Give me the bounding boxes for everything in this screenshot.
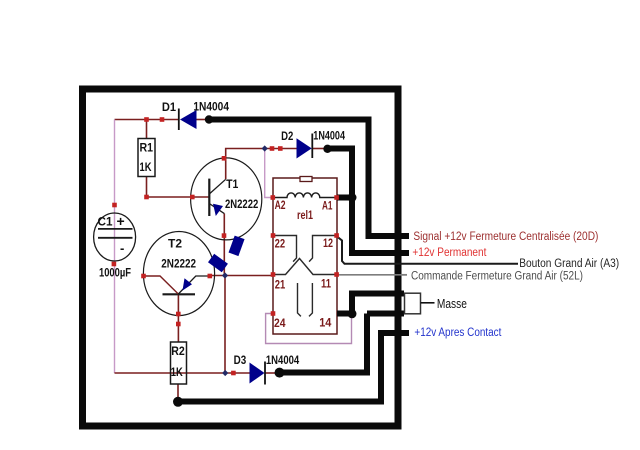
relay pin labels (274, 198, 333, 330)
wire D1 triangle to junction dot (196, 119, 209, 121)
blue annotation bar upper (229, 236, 245, 257)
relay contact pin22 (273, 236, 297, 262)
svg-text:1N4004: 1N4004 (266, 353, 300, 367)
masse link line (421, 302, 435, 304)
svg-text:D2: D2 (281, 129, 293, 143)
thick wire Masse stub and down to dot (352, 294, 404, 314)
svg-text:14: 14 (319, 316, 331, 330)
svg-text:+12v Permanent: +12v Permanent (412, 247, 487, 259)
thick wire relay A1 to permanent net (337, 195, 354, 201)
thick wire masse dot to relay pin14 (337, 311, 354, 317)
junction dot R2 bottom (173, 397, 183, 407)
wire Commande gray line from pin11 (337, 274, 407, 276)
svg-text:D1: D1 (162, 100, 176, 114)
wire T2 emitter to relay pin 21 (210, 275, 273, 277)
relay coil (273, 193, 337, 198)
wire Bouton Grand Air line from pin12 (337, 237, 518, 264)
junction dot masse net (348, 309, 357, 318)
diode D1 (180, 110, 197, 129)
svg-text:1N4004: 1N4004 (193, 99, 229, 113)
relay lower contact right (309, 283, 312, 316)
wire D3 bar to dot (265, 372, 279, 374)
svg-text:-: - (120, 241, 124, 256)
junction dot D1 (205, 115, 213, 123)
svg-text:A1: A1 (322, 198, 333, 212)
junction dot D2 (323, 145, 331, 153)
svg-text:1N4004: 1N4004 (313, 129, 345, 143)
svg-text:Signal +12v Fermeture Centrali: Signal +12v Fermeture Centralisée (20D) (413, 231, 598, 243)
junction diamonds navy (222, 145, 268, 376)
terminal squares red (112, 117, 339, 375)
wire T1 emitter down to node (223, 214, 225, 276)
svg-text:R2: R2 (171, 344, 185, 358)
svg-text:21: 21 (275, 277, 286, 291)
thick wire D2 dot right down to +12v Permanent (327, 149, 409, 254)
wire node down to D3 net (224, 276, 226, 374)
commande stub (402, 274, 407, 276)
wire T1 collector up to D2 net (226, 149, 297, 180)
junction dot D3 (275, 368, 285, 378)
wire R1 top stem (146, 120, 148, 139)
svg-text:C1: C1 (98, 215, 113, 229)
svg-text:Masse: Masse (437, 297, 467, 311)
transistor T2 (143, 232, 214, 316)
svg-text:R1: R1 (140, 141, 154, 155)
relay top notch (300, 177, 312, 182)
wire R1 to T1 base (147, 196, 209, 198)
svg-text:1000µF: 1000µF (99, 266, 131, 280)
thick wire D3 dot to masse box bottom (279, 314, 404, 373)
relay rel1 box (273, 178, 337, 334)
transistor T1 (191, 158, 262, 240)
capacitor C1 (94, 213, 136, 261)
svg-text:2N2222: 2N2222 (161, 257, 196, 271)
svg-text:1K: 1K (171, 365, 183, 379)
relay lower contact left (298, 283, 301, 316)
relay armature (273, 259, 337, 275)
svg-text:rel1: rel1 (297, 208, 313, 222)
svg-text:A2: A2 (275, 198, 286, 212)
wire top-left horizontal node to D1 (115, 119, 179, 121)
wire R2 bottom stem (177, 384, 179, 400)
svg-text:22: 22 (275, 236, 286, 250)
relay contact pin12 (309, 236, 337, 262)
diode D2 (297, 138, 312, 158)
wire R1 bottom stem (146, 177, 148, 198)
svg-text:Commande Fermeture Grand Air (: Commande Fermeture Grand Air (52L) (411, 271, 583, 283)
svg-text:D3: D3 (234, 353, 247, 367)
svg-text:Bouton Grand Air (A3): Bouton Grand Air (A3) (519, 258, 619, 270)
junction dot A1 net (348, 193, 357, 202)
wire relay pin24 to masse net (266, 314, 352, 344)
diode D3 (250, 363, 265, 384)
svg-text:T2: T2 (168, 236, 182, 250)
wire T2 base stem to R2 (177, 295, 179, 342)
svg-text:12: 12 (323, 236, 333, 250)
wire bottom horizontal to D3 (115, 372, 250, 374)
svg-text:1K: 1K (140, 160, 152, 174)
svg-text:+: + (117, 213, 125, 229)
svg-text:2N2222: 2N2222 (225, 197, 259, 211)
wire A2 vertical pink from D2 net (265, 149, 272, 198)
svg-text:24: 24 (274, 316, 286, 330)
svg-text:+12v Apres Contact: +12v Apres Contact (414, 327, 502, 339)
resistor R2 (171, 342, 187, 384)
wire D2 bar to dot (312, 148, 327, 150)
svg-text:T1: T1 (226, 177, 238, 191)
blue annotation bar lower (208, 254, 228, 272)
wire left vertical pink net (114, 120, 116, 374)
thick wire D1 dot right and down to Signal label (209, 120, 409, 237)
thick wire R2 dot to +12v Apres Contact (178, 333, 409, 402)
masse connector box (405, 293, 421, 314)
resistor R1 (138, 139, 155, 177)
svg-text:11: 11 (321, 276, 331, 290)
